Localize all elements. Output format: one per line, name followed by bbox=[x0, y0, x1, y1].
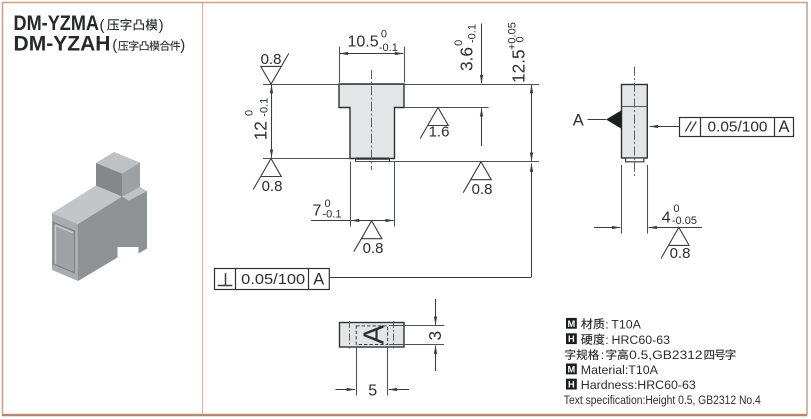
svg-text:A: A bbox=[313, 271, 324, 289]
svg-text:3: 3 bbox=[425, 331, 445, 341]
svg-text::: : bbox=[605, 317, 608, 331]
svg-text:HRC60-63: HRC60-63 bbox=[612, 333, 671, 347]
svg-text:): ) bbox=[180, 37, 185, 54]
svg-text:Hardness:HRC60-63: Hardness:HRC60-63 bbox=[581, 378, 696, 392]
svg-text:-0.1: -0.1 bbox=[323, 208, 342, 220]
svg-text:-0.05: -0.05 bbox=[672, 215, 697, 227]
svg-text:0.8: 0.8 bbox=[472, 181, 493, 198]
svg-text:Material:T10A: Material:T10A bbox=[581, 363, 659, 377]
svg-text:A: A bbox=[778, 118, 789, 136]
svg-text:(: ( bbox=[100, 17, 105, 34]
svg-text::: : bbox=[601, 348, 604, 362]
svg-text:12: 12 bbox=[251, 121, 271, 140]
svg-text:-0.1: -0.1 bbox=[379, 42, 398, 54]
svg-text:): ) bbox=[159, 17, 164, 34]
svg-text:-0.1: -0.1 bbox=[259, 98, 271, 117]
svg-text:0.05/100: 0.05/100 bbox=[708, 119, 768, 136]
svg-text:Text specification:Height 0.5,: Text specification:Height 0.5, GB2312 No… bbox=[564, 393, 761, 407]
svg-text:0: 0 bbox=[673, 203, 679, 215]
svg-text:5: 5 bbox=[368, 383, 377, 400]
svg-text:0: 0 bbox=[381, 28, 387, 40]
svg-text:A: A bbox=[573, 112, 584, 130]
svg-text:0.05/100: 0.05/100 bbox=[241, 271, 305, 288]
svg-text:DM-YZAH: DM-YZAH bbox=[14, 31, 111, 55]
svg-text:3.6: 3.6 bbox=[457, 47, 477, 71]
svg-text:1.6: 1.6 bbox=[429, 124, 450, 141]
svg-text:0.8: 0.8 bbox=[261, 51, 282, 68]
svg-text:M: M bbox=[568, 364, 576, 374]
svg-text:H: H bbox=[568, 380, 575, 390]
svg-text:0.5,GB2312: 0.5,GB2312 bbox=[629, 348, 702, 362]
svg-text:4: 4 bbox=[662, 209, 671, 226]
svg-text::: : bbox=[605, 333, 608, 347]
svg-text:0: 0 bbox=[453, 40, 465, 46]
svg-text:10.5: 10.5 bbox=[348, 34, 379, 51]
svg-text:0.8: 0.8 bbox=[262, 178, 283, 195]
svg-text:7: 7 bbox=[313, 203, 322, 220]
svg-text:A: A bbox=[359, 324, 391, 344]
svg-text:M: M bbox=[568, 319, 576, 329]
svg-text:T10A: T10A bbox=[611, 317, 641, 331]
svg-text:-0.1: -0.1 bbox=[467, 24, 479, 43]
svg-text:(: ( bbox=[112, 37, 117, 54]
svg-text:0: 0 bbox=[515, 36, 527, 42]
svg-text:+0.05: +0.05 bbox=[507, 22, 519, 50]
svg-text:0: 0 bbox=[244, 110, 256, 116]
svg-text:12.5: 12.5 bbox=[509, 49, 529, 83]
svg-text:0.8: 0.8 bbox=[670, 245, 691, 262]
svg-text:0.8: 0.8 bbox=[363, 240, 384, 257]
svg-text:H: H bbox=[568, 334, 575, 344]
